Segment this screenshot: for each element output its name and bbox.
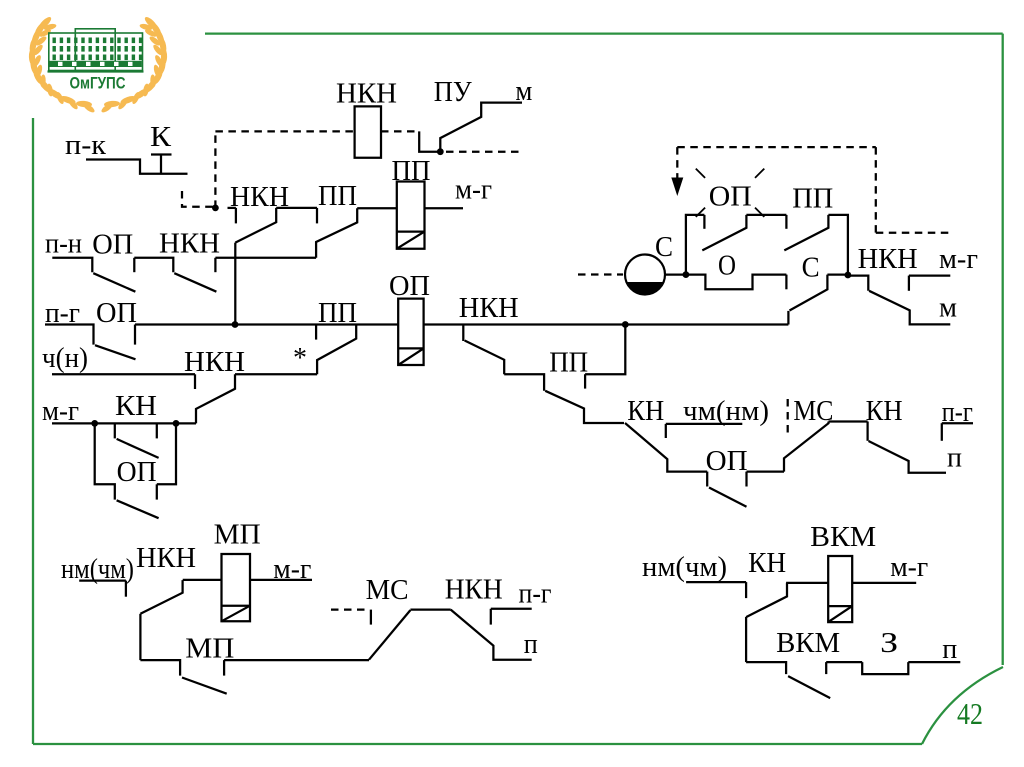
svg-text:42: 42 [957,696,983,731]
logo building [48,29,144,72]
terminal p-g3 hook [490,609,492,625]
contact NKN (p-g) fixed hook [462,325,464,342]
svg-text:ПП: ПП [318,180,357,212]
slide frame bottom border [33,743,922,745]
dashed wire stub to C relay [578,273,623,275]
wire PP coil to m-g [425,207,464,209]
svg-text:м: м [939,291,957,323]
svg-text:НКН: НКН [459,292,519,324]
contact KN-vkm rail [745,617,747,662]
svg-text:МП: МП [214,519,261,551]
svg-text:п-г: п-г [519,578,552,610]
contact NKN* blade from m-g row [196,374,235,423]
wire p-n [52,258,92,272]
dashed wire NKN coil to PU [381,130,419,132]
svg-text:ПП: ПП [318,297,357,329]
contact C2 fixed hook [785,275,787,290]
relay coil PP [397,182,425,249]
svg-text:п: п [947,442,962,474]
contact OP (p-n row) blade [93,273,135,292]
node middle dot1 [683,271,690,278]
wire to VKM coil [786,582,828,584]
svg-text:м-г: м-г [890,551,928,583]
svg-text:КН: КН [866,395,903,427]
contact NKN* fixed hook [194,374,196,389]
node PU junction [437,148,444,155]
contact PP fixed hook [316,208,318,224]
svg-text:З: З [880,627,898,659]
wire from bus dot down [585,325,625,375]
svg-text:нм(чм): нм(чм) [642,551,727,583]
contact OP (p-g row) blade [95,345,136,359]
wire upper rail right [828,215,848,275]
contact K (key) [160,155,162,174]
node bus/rail junction [232,321,239,328]
wire C to node1 [665,273,686,275]
svg-text:п-к: п-к [65,129,107,161]
dashed feedback bottom run [876,232,950,234]
contact OP3 blade [709,488,747,507]
svg-text:С: С [802,251,820,283]
contact NKN (upper) fixed hook [235,208,237,224]
wire p-g bus right [424,323,789,325]
node middle dot2 [845,272,852,279]
svg-text:п: п [524,628,538,660]
svg-text:ч(н): ч(н) [42,342,88,374]
svg-text:*: * [293,342,307,374]
terminal chm(nm) hook [665,424,667,438]
contact MP fixed hook [223,660,225,676]
wire rail down to p-g bus [234,243,236,325]
contact KN fixed hook [156,423,158,438]
contact KN1 blade [625,423,707,472]
contact NKN-right blade [869,291,950,325]
contact PU blade to m [440,103,522,152]
dashed wire horizontal into NKN coil [215,130,354,132]
dashed wire vertical to NKN coil [214,131,216,208]
contact MS2 blade [369,610,410,660]
svg-text:КН: КН [627,395,664,427]
contact OP3 fixed hook [745,472,747,487]
contact OP (p-g row) fixed hook [134,325,136,345]
svg-text:ВКМ: ВКМ [776,627,840,659]
wire VKM row [746,662,786,674]
svg-text:ОмГУПС: ОмГУПС [70,75,126,93]
contact OP-flash fixed hook [703,215,705,229]
relay C symbol circle [625,255,665,295]
contact NKN3 blade [451,610,532,660]
svg-text:п-н: п-н [45,228,82,260]
slide frame right border [1002,34,1004,665]
contact MS2 fixed hook [370,610,372,625]
svg-text:НКН: НКН [336,77,397,109]
svg-text:НКН: НКН [858,243,918,275]
contact KN2 blade [869,441,947,473]
wire OP row right [747,470,785,472]
svg-text:ОП: ОП [709,181,752,213]
svg-text:м-г: м-г [455,174,492,206]
svg-text:п-г: п-г [942,396,973,428]
svg-text:С: С [655,231,673,263]
contact VKM fixed hook [825,662,827,674]
svg-text:МС: МС [793,395,833,427]
dashed stub MS2 [331,608,367,610]
terminal p-g right wire [942,422,973,424]
contact PP-right fixed hook [785,215,787,229]
relay coil OP [398,299,423,365]
svg-text:ОП: ОП [389,270,430,302]
wire ch(n) [52,373,195,375]
slide frame top border [205,32,1003,34]
svg-text:м-г: м-г [273,553,311,585]
contact NKN-mp blade [140,580,182,614]
contact * riser to bus [317,325,356,375]
wire MP coil to m-g [250,579,312,581]
contact OP-flash blade [702,215,746,251]
svg-text:ПУ: ПУ [434,76,472,108]
svg-text:НКН: НКН [445,574,503,606]
terminal nm(chm) hook [125,581,127,597]
contact NKN (upper) blade [235,208,276,243]
terminal nm(chm)2 hook [745,582,747,598]
svg-text:ВКМ: ВКМ [810,521,876,553]
wire to PP contact [276,207,317,209]
terminal m-g right wire [909,274,950,276]
relay coil NKN (top) [355,106,381,157]
dashed feedback rectangle top [677,146,876,148]
contact OP2 blade [117,500,159,518]
wire ch(n) row to * contact [235,373,317,375]
contact KN step [114,423,116,438]
relay coil MP [222,554,251,621]
contact PP blade from p-n row [316,208,357,258]
wire lower path right [827,273,848,275]
svg-text:МС: МС [366,574,409,606]
svg-text:ОП: ОП [96,297,137,329]
svg-text:НКН: НКН [136,542,196,574]
svg-text:ПП: ПП [549,346,588,378]
terminal p-g right hook [941,423,943,441]
svg-text:чм(нм): чм(нм) [683,395,769,427]
node bus/PP-row junction [622,321,629,328]
wire NKN blade to PP3 [504,374,544,391]
svg-text:КН: КН [748,547,786,579]
slide frame left border [32,118,34,744]
flash tick lower-left [696,208,705,217]
wire p-n row to PP riser [215,257,316,259]
svg-text:К: К [150,121,172,153]
wire to PP coil [357,207,397,209]
node dashed junction [212,205,219,212]
contact VKM blade [788,676,830,698]
dashed feedback right side [875,147,877,233]
wire upper rail mid [746,214,786,216]
svg-text:м-г: м-г [42,395,79,427]
contact KN blade [117,439,159,458]
wire to p terminal [908,661,960,663]
dashed wire right of PU junction [446,151,523,153]
logo laurel wreath [29,15,168,114]
dashed tick MS [787,399,789,438]
svg-text:ОП: ОП [117,456,157,488]
wire between OP and NKN (p-n row) [134,258,173,272]
svg-text:п: п [942,633,957,665]
terminal m-g right hook [908,276,910,291]
terminal chm(nm) wire [666,423,743,425]
contact OP3 step [706,472,708,487]
slide frame corner arc [922,667,1003,744]
svg-text:ПП: ПП [792,183,833,215]
contact KN2 step [866,422,868,441]
wire OP lower branch [95,423,115,499]
wire p-k [86,160,188,174]
wire elbow to PU junction [419,131,440,151]
dashed arrow down [676,147,678,178]
contact PP3 fixed hook [584,374,586,388]
svg-text:НКН: НКН [159,228,220,260]
contact KN-vkm blade [746,583,787,617]
contact Z dip [862,662,908,674]
wire lower path left [686,275,787,290]
wire to MP coil [183,579,222,581]
svg-text:ОП: ОП [706,445,748,477]
wire bus end hook up [787,311,789,325]
svg-text:ОП: ОП [92,229,133,261]
wire VKM coil to m-g [852,582,916,584]
node m-g dot2 [173,420,180,427]
wire p-g bus left [135,323,398,325]
wire upper row MS-KN2 [829,420,868,422]
contact PP-right blade [784,215,828,251]
wire nm(chm)2 [686,581,746,583]
wire VKM row mid [826,661,862,663]
contact MS blade [784,422,829,472]
wire p-g start [45,325,94,345]
dashed wire elbow from K [182,191,213,207]
wire dot2 to NKN contact [848,276,868,291]
flash tick upper-left [696,169,705,178]
contact NKN (p-g) blade down [465,341,505,375]
contact OP (p-n row) fixed hook [133,258,135,272]
flash tick upper-right [755,169,764,178]
contact NKN (p-n row) blade [174,273,216,292]
wire upper rail riser left [686,215,705,275]
node m-g dot1 [91,420,98,427]
contact MP blade [182,678,227,694]
wire nm(chm) [79,579,126,581]
contact NKN-mp rail [139,614,141,660]
contact NKN (p-n row) fixed hook [214,258,216,272]
wire MP row right [224,659,369,661]
contact C (lower) blade [790,275,828,311]
wire MP row [140,660,180,676]
contact PP3 blade [545,391,624,423]
svg-text:м-г: м-г [939,243,978,275]
terminal p-g3 wire [491,608,532,610]
svg-text:м: м [515,75,532,107]
svg-text:КН: КН [115,390,157,422]
arrowhead [671,178,683,197]
wire OP branch to dot2 [157,423,176,484]
svg-text:ПП: ПП [392,155,431,187]
wire m-g row [52,422,196,424]
contact OP2 fixed hook [156,484,158,499]
wire MS2 to NKN3 [410,608,450,610]
contact PP2 fixed hook [315,325,317,340]
relay coil VKM [828,556,852,622]
flash tick lower-right [755,208,764,217]
wire junction to NKN contact [228,207,236,209]
svg-text:О: О [718,249,736,281]
